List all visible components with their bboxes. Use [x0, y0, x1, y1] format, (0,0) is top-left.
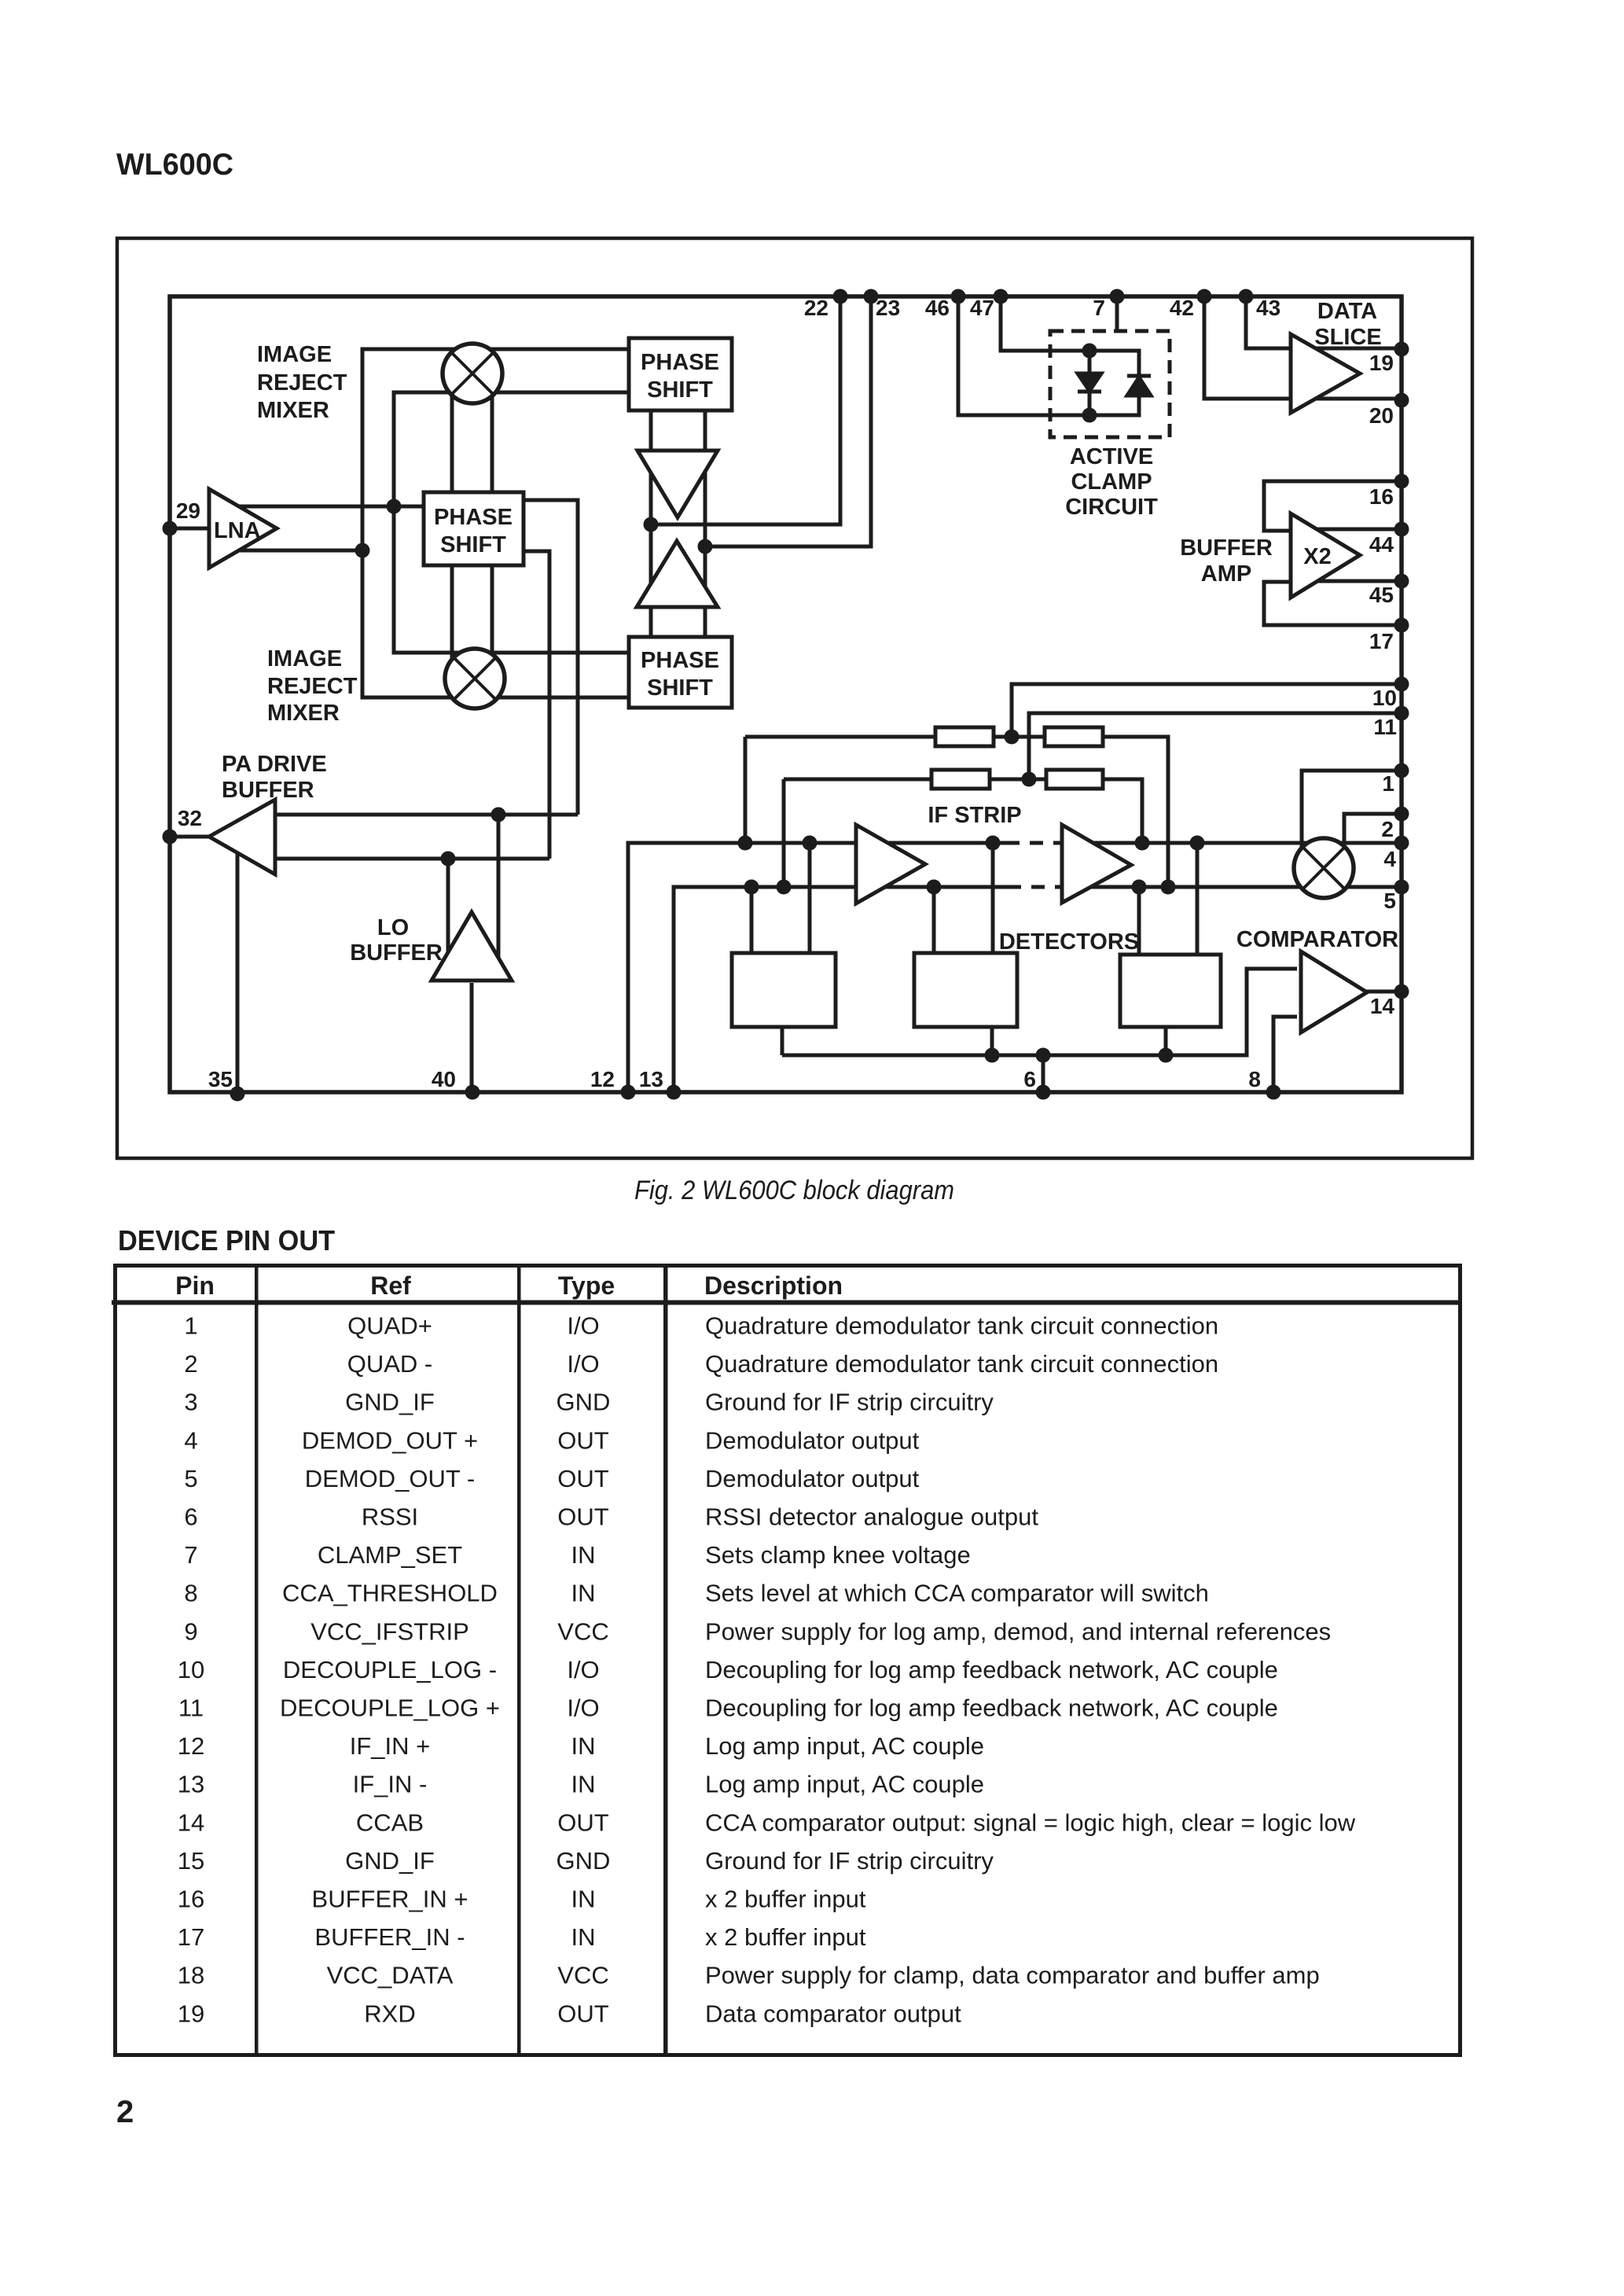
resistor R4 (log feedback) [1046, 770, 1103, 789]
svg-text:42: 42 [1170, 296, 1194, 320]
wire clamp right branch bottom [1089, 395, 1139, 415]
wire feedback row2 left lead [784, 778, 931, 782]
wire feedback row1 centre tap to pin 10 [1012, 684, 1402, 737]
svg-text:3: 3 [184, 1389, 197, 1416]
svg-text:VCC_DATA: VCC_DATA [327, 1962, 454, 1989]
wire pin7 stub to clamp box [1115, 296, 1119, 331]
svg-text:x 2 buffer input: x 2 buffer input [705, 1923, 866, 1951]
diode D2 (clamp, cathode up) [1127, 376, 1151, 396]
node pin 5 [1394, 880, 1409, 895]
amplifier IF strip stage 2 [1062, 825, 1131, 903]
svg-text:13: 13 [639, 1067, 663, 1091]
svg-text:18: 18 [178, 1962, 204, 1989]
wire data slice output to pin 19 [1313, 347, 1402, 351]
node pin 2 [1394, 807, 1409, 822]
svg-text:CCA comparator output: signal: CCA comparator output: signal = logic hi… [705, 1808, 1356, 1836]
svg-text:Ground for IF strip circuitry: Ground for IF strip circuitry [705, 1389, 994, 1416]
svg-text:32: 32 [178, 806, 202, 830]
node pin 6 [1036, 1085, 1051, 1100]
svg-text:CLAMP_SET: CLAMP_SET [318, 1541, 462, 1569]
wire RSSI rail to comparator input+ [782, 969, 1297, 1055]
svg-text:I/O: I/O [567, 1694, 599, 1722]
svg-text:14: 14 [1370, 994, 1395, 1018]
wire pin13 IF_IN- line [674, 887, 1008, 1092]
junction LNA upper output [387, 499, 402, 514]
svg-text:23: 23 [876, 296, 900, 320]
detector box 2 [914, 953, 1017, 1027]
svg-text:DECOUPLE_LOG -: DECOUPLE_LOG - [283, 1656, 497, 1683]
node pin 40 [465, 1085, 480, 1100]
junction feedback row1 centre [1005, 730, 1020, 745]
svg-text:IN: IN [571, 1541, 596, 1569]
svg-text:SHIFT: SHIFT [647, 675, 713, 701]
svg-text:Decoupling for log amp feedbac: Decoupling for log amp feedback network,… [705, 1694, 1278, 1722]
wire detector2 output [990, 1027, 994, 1055]
svg-text:LO: LO [377, 915, 409, 940]
junction RSSI pin6 [1036, 1048, 1051, 1063]
svg-text:9: 9 [184, 1617, 197, 1645]
wire IF+ dashed continuation [1006, 841, 1063, 845]
svg-text:RSSI: RSSI [362, 1503, 418, 1531]
svg-text:14: 14 [178, 1808, 204, 1836]
wire feedback row1 left lead [745, 735, 935, 739]
pinout table outer border [116, 1266, 1460, 2055]
svg-text:REJECT: REJECT [257, 370, 347, 396]
svg-text:2: 2 [1381, 817, 1394, 841]
wire pin46 to clamp bottom node [958, 296, 1089, 415]
wire LNA lower output [224, 549, 362, 553]
junction IF+ r1 tap [738, 836, 753, 851]
svg-text:IN: IN [571, 1771, 596, 1798]
svg-text:BUFFER: BUFFER [350, 940, 443, 966]
junction PA input upper [491, 808, 506, 822]
svg-text:Data comparator output: Data comparator output [705, 2000, 961, 2027]
svg-text:CIRCUIT: CIRCUIT [1065, 495, 1158, 520]
junction IF+ det1 [803, 836, 818, 851]
wire comparator output to pin 14 [1364, 990, 1402, 994]
wire pin2 QUAD- to demod mixer [1344, 814, 1402, 853]
amplifier IF strip stage 1 [856, 825, 925, 903]
svg-text:16: 16 [1369, 484, 1394, 509]
node pin 19 [1394, 342, 1409, 357]
svg-text:46: 46 [925, 296, 950, 320]
wire buffer amp output to pin 45 [1311, 580, 1402, 583]
svg-text:IF_IN -: IF_IN - [353, 1771, 428, 1798]
junction IF- r2 tap [777, 880, 792, 895]
junction Q buffer output [698, 539, 713, 554]
svg-text:6: 6 [1023, 1067, 1036, 1091]
svg-text:PHASE: PHASE [641, 648, 719, 673]
svg-text:44: 44 [1369, 532, 1394, 557]
svg-text:OUT: OUT [557, 1465, 609, 1492]
junction IF- det3 [1132, 880, 1147, 895]
wire mid phase shift output B down [524, 551, 549, 859]
svg-text:PHASE: PHASE [641, 350, 719, 375]
wire IF- line to pin 5 [1063, 885, 1402, 889]
svg-text:ACTIVE: ACTIVE [1070, 444, 1153, 469]
svg-text:VCC: VCC [557, 1617, 608, 1645]
wire top mixer to mid phase shift left [450, 370, 454, 492]
junction IF- det2 [927, 880, 942, 895]
svg-text:SLICE: SLICE [1314, 325, 1381, 350]
wire IF+ line to pin 4 [1063, 841, 1402, 845]
phase shift box (LO, middle) [424, 492, 524, 565]
wire LNA upper output to mid phase shift [224, 505, 424, 509]
svg-text:Fig. 2 WL600C block diagram: Fig. 2 WL600C block diagram [634, 1176, 954, 1205]
svg-text:CCA_THRESHOLD: CCA_THRESHOLD [282, 1580, 498, 1607]
mixer M3 (quadrature demodulator) [1294, 838, 1354, 898]
active clamp dashed enclosure [1050, 331, 1170, 437]
resistor R3 (log feedback) [931, 770, 990, 789]
svg-text:DATA: DATA [1317, 299, 1377, 324]
amplifier LO buffer (pointing up) [432, 912, 512, 981]
wire top mixer to mid phase shift right [491, 370, 494, 492]
pinout table header separator [112, 1301, 1460, 1305]
junction IF- r1 return [1161, 880, 1176, 895]
diode D1 (clamp, cathode down) [1078, 373, 1101, 392]
svg-text:IN: IN [571, 1923, 596, 1951]
detector box 3 [1120, 955, 1221, 1027]
wire detector2 input A [932, 887, 936, 953]
svg-text:GND_IF: GND_IF [345, 1847, 435, 1875]
svg-text:Demodulator output: Demodulator output [705, 1465, 920, 1492]
svg-text:Quadrature demodulator tank ci: Quadrature demodulator tank circuit conn… [705, 1350, 1218, 1378]
node pin 14 [1394, 984, 1409, 999]
wire clamp left diode cathode [1088, 389, 1092, 415]
svg-text:IN: IN [571, 1580, 596, 1607]
phase shift box (IF, lower right) [629, 637, 732, 708]
svg-text:QUAD+: QUAD+ [347, 1312, 432, 1340]
svg-text:1: 1 [184, 1312, 197, 1340]
svg-text:OUT: OUT [557, 1426, 609, 1454]
node pin 35 [230, 1087, 245, 1102]
wire detector2 input B [991, 843, 995, 953]
junction IF+ det2 [986, 836, 1001, 851]
node pin 45 [1394, 574, 1409, 589]
junction PA input lower [441, 852, 456, 867]
svg-text:47: 47 [970, 296, 994, 320]
svg-text:X2: X2 [1303, 544, 1331, 569]
svg-text:OUT: OUT [557, 1503, 609, 1531]
svg-text:IMAGE: IMAGE [267, 646, 342, 672]
wire pin47 to clamp top node [1001, 296, 1089, 351]
wire pin42 to data slice input- [1204, 296, 1297, 399]
svg-text:MIXER: MIXER [267, 701, 340, 726]
svg-text:12: 12 [590, 1067, 615, 1091]
detector box 1 [732, 953, 836, 1027]
svg-text:IN: IN [571, 1886, 596, 1913]
pinout table column rule 1 [255, 1268, 259, 2054]
svg-text:VCC_IFSTRIP: VCC_IFSTRIP [310, 1617, 469, 1645]
svg-text:GND_IF: GND_IF [345, 1389, 435, 1416]
svg-text:CLAMP: CLAMP [1071, 469, 1152, 495]
svg-text:29: 29 [176, 499, 200, 523]
svg-text:DETECTORS: DETECTORS [999, 929, 1139, 955]
svg-text:5: 5 [1383, 889, 1396, 913]
node pin 16 [1394, 474, 1409, 489]
svg-text:CCAB: CCAB [356, 1808, 424, 1836]
svg-text:I/O: I/O [567, 1656, 599, 1683]
wire LO buffer output right [497, 815, 501, 975]
wire RSSI rail to pin 6 [1042, 1055, 1045, 1092]
svg-text:Log amp input, AC couple: Log amp input, AC couple [705, 1732, 984, 1760]
svg-text:11: 11 [1373, 715, 1397, 739]
wire detector3 output [1164, 1027, 1168, 1055]
svg-text:I/O: I/O [567, 1312, 599, 1340]
node pin 47 [994, 289, 1009, 304]
svg-text:17: 17 [178, 1923, 204, 1951]
svg-text:SHIFT: SHIFT [440, 532, 506, 557]
node pin 44 [1394, 522, 1409, 537]
node pin 10 [1394, 677, 1409, 692]
node pin 17 [1394, 618, 1409, 633]
wire IF- dashed continuation [1008, 885, 1063, 889]
wire detector1 output [781, 1027, 784, 1055]
IC boundary rectangle (wire) [170, 296, 1402, 1092]
svg-text:RSSI detector analogue output: RSSI detector analogue output [705, 1503, 1038, 1531]
wire pin35 to PA drive buffer [236, 841, 240, 1092]
wire buffer amp output to pin 44 [1311, 528, 1402, 532]
svg-text:8: 8 [1248, 1067, 1261, 1091]
svg-text:QUAD -: QUAD - [347, 1350, 433, 1378]
phase shift box (RF, upper right) [629, 338, 732, 410]
svg-text:BUFFER: BUFFER [1180, 535, 1273, 561]
wire RF path A: top mixer upper / bottom mixer lower [362, 349, 629, 697]
svg-text:VCC: VCC [557, 1962, 608, 1989]
wire pin17 to buffer amp input- [1264, 582, 1402, 625]
wire mid phase shift to bottom mixer right [491, 565, 494, 676]
svg-text:SHIFT: SHIFT [647, 377, 713, 403]
svg-text:DECOUPLE_LOG +: DECOUPLE_LOG + [280, 1694, 500, 1722]
node pin 1 [1394, 763, 1409, 778]
svg-text:Quadrature demodulator tank ci: Quadrature demodulator tank circuit conn… [705, 1312, 1218, 1340]
svg-text:45: 45 [1369, 583, 1394, 607]
svg-text:13: 13 [178, 1771, 204, 1798]
wire pin40 to LO buffer input [470, 983, 474, 1092]
svg-text:GND: GND [557, 1847, 611, 1875]
svg-text:RXD: RXD [364, 2000, 415, 2027]
wire Q buffer output to pin 23 [705, 296, 871, 546]
wire pin29 to LNA input [170, 527, 211, 531]
svg-text:Pin: Pin [175, 1271, 215, 1300]
svg-text:Decoupling for log amp feedbac: Decoupling for log amp feedback network,… [705, 1656, 1278, 1683]
svg-text:20: 20 [1369, 403, 1394, 428]
node pin 11 [1394, 706, 1409, 721]
comparator data slice [1291, 334, 1360, 413]
junction IF- det1 [744, 880, 759, 895]
wire detector3 input B [1196, 843, 1200, 955]
buffer B2 (Q path, pointing up) [637, 541, 718, 607]
svg-text:4: 4 [184, 1426, 197, 1454]
svg-text:BUFFER_IN +: BUFFER_IN + [312, 1886, 468, 1913]
wire pin16 to buffer amp input+ [1264, 481, 1402, 531]
wire pin12 IF_IN+ line [628, 843, 1006, 1092]
wire mid phase shift output A down [524, 500, 578, 815]
node pin 4 [1394, 836, 1409, 851]
wire feedback row2 middle lead [990, 778, 1046, 782]
svg-text:Ground for IF strip circuitry: Ground for IF strip circuitry [705, 1847, 994, 1875]
svg-text:PA DRIVE: PA DRIVE [222, 752, 327, 777]
junction IF+ det3 [1190, 836, 1205, 851]
wire LO buffer output left [446, 859, 450, 975]
wire RF path B: top mixer lower / bottom mixer upper [394, 392, 629, 653]
svg-text:7: 7 [184, 1541, 197, 1569]
node pin 22 [833, 289, 848, 304]
svg-text:Demodulator output: Demodulator output [705, 1426, 920, 1454]
svg-text:Log amp input, AC couple: Log amp input, AC couple [705, 1771, 984, 1798]
svg-text:19: 19 [1369, 351, 1394, 375]
svg-text:BUFFER_IN -: BUFFER_IN - [314, 1923, 465, 1951]
svg-text:10: 10 [178, 1656, 204, 1683]
svg-text:22: 22 [804, 296, 829, 320]
comparator U1 (CCA) [1301, 951, 1367, 1032]
node pin 42 [1197, 289, 1212, 304]
svg-text:DEVICE PIN OUT: DEVICE PIN OUT [118, 1224, 335, 1257]
svg-text:Description: Description [704, 1271, 843, 1300]
wire pin1 QUAD+ to demod mixer [1302, 771, 1402, 853]
node pin 12 [621, 1085, 636, 1100]
node pin 23 [864, 289, 879, 304]
node pin 43 [1239, 289, 1254, 304]
svg-text:10: 10 [1372, 686, 1397, 710]
svg-text:OUT: OUT [557, 2000, 609, 2027]
wire feedback row1 middle lead [994, 735, 1045, 739]
svg-text:REJECT: REJECT [267, 674, 358, 699]
wire mid phase shift to bottom mixer left [450, 565, 454, 676]
svg-text:DEMOD_OUT -: DEMOD_OUT - [305, 1465, 475, 1492]
diagram outer border frame [117, 238, 1472, 1158]
junction clamp bottom node [1082, 408, 1097, 423]
svg-text:COMPARATOR: COMPARATOR [1236, 927, 1398, 952]
pinout table column rule 2 [517, 1268, 521, 2054]
junction clamp top node [1082, 344, 1097, 359]
svg-text:Sets level at which CCA compar: Sets level at which CCA comparator will … [705, 1580, 1209, 1607]
wire detector3 input A [1137, 887, 1141, 955]
svg-text:IMAGE: IMAGE [257, 342, 332, 367]
junction RSSI det3 [1159, 1048, 1174, 1063]
svg-text:x 2 buffer input: x 2 buffer input [705, 1886, 866, 1913]
node pin 46 [951, 289, 966, 304]
wire phase shift chain left rail [649, 410, 653, 637]
node pin 7 [1110, 289, 1125, 304]
svg-text:PHASE: PHASE [434, 505, 513, 530]
wire pin43 to data slice input+ [1246, 296, 1297, 348]
node pin 29 [163, 521, 178, 536]
svg-text:4: 4 [1383, 847, 1396, 871]
svg-text:15: 15 [178, 1847, 204, 1875]
svg-text:LNA: LNA [214, 518, 261, 543]
svg-text:Power supply for clamp, data c: Power supply for clamp, data comparator … [705, 1962, 1320, 1989]
svg-text:1: 1 [1382, 771, 1394, 796]
wire feedback row2 right lead down to IF+ line [1103, 779, 1142, 843]
junction I buffer output [644, 517, 659, 532]
wire pin32 to PA drive buffer output [170, 835, 211, 839]
node pin 8 [1266, 1085, 1281, 1100]
pinout table column rule 3 [663, 1268, 668, 2054]
table body rows [178, 1312, 1356, 2028]
mixer M2 (image reject, bottom) [445, 649, 505, 708]
mixer M1 (image reject, top) [443, 344, 502, 403]
wire detector1 input B [808, 843, 812, 953]
wire feedback row1 right lead down to IF- line [1103, 737, 1168, 887]
svg-text:6: 6 [184, 1503, 197, 1531]
svg-text:MIXER: MIXER [257, 398, 329, 423]
svg-text:16: 16 [178, 1886, 204, 1913]
svg-text:OUT: OUT [557, 1808, 609, 1836]
svg-text:IF_IN +: IF_IN + [350, 1732, 431, 1760]
wire detector1 input A [750, 887, 754, 953]
junction IF+ r2 return [1135, 836, 1150, 851]
amplifier X2 buffer [1291, 513, 1360, 598]
junction feedback row2 centre [1022, 772, 1037, 787]
svg-text:40: 40 [432, 1067, 456, 1091]
svg-text:GND: GND [557, 1389, 611, 1416]
wire PA drive buffer upper input [275, 813, 578, 817]
node pin 20 [1394, 393, 1409, 408]
svg-text:35: 35 [208, 1067, 233, 1091]
wire phase shift chain right rail [704, 410, 707, 637]
node pin 13 [667, 1085, 682, 1100]
wire feedback row2 tap to IF- line [782, 779, 786, 887]
svg-text:2: 2 [116, 2095, 134, 2129]
amplifier PA drive buffer (pointing left) [209, 800, 275, 874]
svg-text:2: 2 [184, 1350, 197, 1378]
amplifier LNA [209, 489, 277, 568]
svg-text:AMP: AMP [1201, 561, 1251, 587]
wire data slice output to pin 20 [1313, 397, 1402, 401]
resistor R2 (log feedback) [1045, 727, 1103, 746]
svg-text:Type: Type [558, 1271, 615, 1300]
junction RSSI det2 [985, 1048, 1000, 1063]
svg-text:7: 7 [1093, 296, 1105, 320]
buffer B1 (I path, pointing down) [637, 451, 718, 517]
svg-text:IF STRIP: IF STRIP [928, 803, 1021, 828]
table header row [175, 1271, 843, 1300]
svg-text:Sets clamp knee voltage: Sets clamp knee voltage [705, 1541, 971, 1569]
svg-text:12: 12 [178, 1732, 204, 1760]
svg-text:IN: IN [571, 1732, 596, 1760]
wire pin8 threshold to comparator input- [1273, 1017, 1297, 1092]
svg-text:WL600C: WL600C [116, 148, 233, 182]
wire PA drive buffer lower input [275, 857, 549, 861]
resistor R1 (log feedback) [935, 727, 994, 746]
svg-text:5: 5 [184, 1465, 197, 1492]
wire clamp right branch top [1089, 351, 1139, 376]
wire feedback row2 centre tap to pin 11 [1029, 713, 1402, 779]
svg-text:11: 11 [178, 1694, 204, 1722]
svg-text:43: 43 [1256, 296, 1280, 320]
junction LNA lower output [355, 543, 370, 558]
node pin 32 [163, 830, 178, 844]
svg-text:I/O: I/O [567, 1350, 599, 1378]
svg-text:Ref: Ref [370, 1271, 411, 1300]
svg-text:Power supply for log amp, demo: Power supply for log amp, demod, and int… [705, 1617, 1331, 1645]
svg-text:DEMOD_OUT +: DEMOD_OUT + [302, 1426, 478, 1454]
wire clamp left diode anode [1088, 351, 1092, 376]
svg-text:17: 17 [1369, 629, 1394, 653]
wire feedback row1 tap to IF+ line [744, 737, 748, 843]
svg-text:BUFFER: BUFFER [222, 778, 314, 803]
svg-text:19: 19 [178, 2000, 204, 2027]
svg-text:8: 8 [184, 1580, 197, 1607]
wire I buffer output to pin 22 [651, 296, 840, 524]
